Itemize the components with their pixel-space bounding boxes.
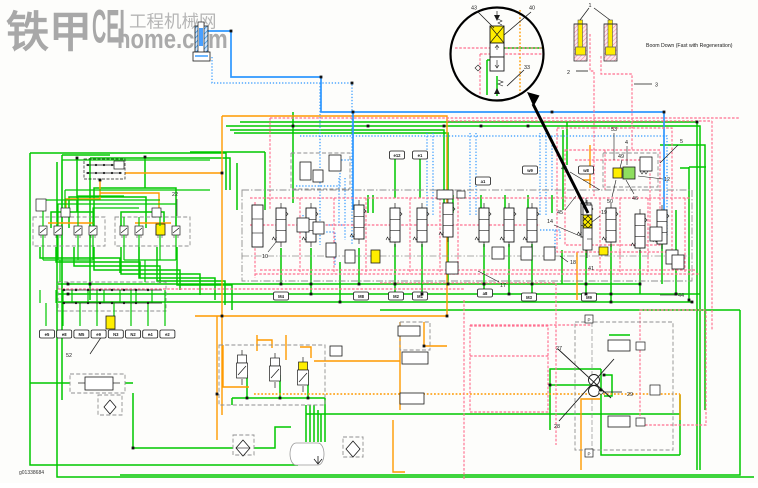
svg-text:Boom Down (Fast with Regenerat: Boom Down (Fast with Regeneration) bbox=[646, 43, 733, 49]
svg-text:e2: e2 bbox=[165, 332, 170, 337]
svg-text:a1: a1 bbox=[481, 179, 486, 184]
svg-text:17: 17 bbox=[500, 283, 506, 289]
svg-text:w9: w9 bbox=[526, 168, 533, 173]
svg-text:18: 18 bbox=[570, 260, 576, 266]
svg-text:home.com: home.com bbox=[117, 25, 228, 55]
svg-text:M3: M3 bbox=[526, 295, 532, 300]
svg-text:5: 5 bbox=[680, 139, 683, 145]
svg-text:53: 53 bbox=[611, 127, 617, 133]
svg-text:19: 19 bbox=[601, 210, 607, 216]
svg-text:29: 29 bbox=[627, 392, 633, 398]
svg-text:44: 44 bbox=[678, 293, 684, 299]
svg-text:49: 49 bbox=[618, 154, 624, 160]
svg-text:40: 40 bbox=[529, 6, 535, 12]
svg-text:46: 46 bbox=[632, 196, 638, 202]
svg-text:e5: e5 bbox=[45, 332, 50, 337]
svg-text:e8: e8 bbox=[62, 332, 67, 337]
svg-text:27: 27 bbox=[556, 346, 562, 352]
svg-text:52: 52 bbox=[66, 353, 72, 359]
svg-text:3: 3 bbox=[655, 83, 658, 89]
svg-text:33: 33 bbox=[524, 65, 530, 71]
svg-text:41: 41 bbox=[588, 266, 594, 272]
svg-text:M8: M8 bbox=[358, 294, 364, 299]
svg-text:M5: M5 bbox=[78, 332, 84, 337]
svg-text:P: P bbox=[587, 452, 590, 457]
svg-text:w8: w8 bbox=[582, 168, 589, 173]
svg-text:28: 28 bbox=[554, 424, 560, 430]
svg-text:e12: e12 bbox=[394, 153, 402, 158]
svg-text:22: 22 bbox=[172, 192, 178, 198]
svg-text:14: 14 bbox=[547, 219, 553, 225]
svg-text:M9: M9 bbox=[586, 295, 592, 300]
svg-text:N3: N3 bbox=[113, 332, 119, 337]
svg-text:e4: e4 bbox=[148, 332, 153, 337]
svg-text:50: 50 bbox=[607, 199, 613, 205]
svg-text:12: 12 bbox=[664, 177, 670, 183]
svg-text:1: 1 bbox=[589, 3, 592, 9]
svg-text:e9: e9 bbox=[96, 332, 101, 337]
svg-text:铁甲: 铁甲 bbox=[6, 9, 92, 57]
svg-text:42: 42 bbox=[561, 166, 567, 172]
svg-text:4: 4 bbox=[625, 140, 628, 146]
svg-text:g01338684: g01338684 bbox=[19, 470, 44, 476]
svg-text:43: 43 bbox=[471, 6, 477, 12]
svg-text:M4: M4 bbox=[278, 294, 284, 299]
svg-text:2: 2 bbox=[567, 70, 570, 76]
svg-text:N2: N2 bbox=[130, 332, 136, 337]
svg-text:45: 45 bbox=[557, 210, 563, 216]
svg-text:M2: M2 bbox=[393, 294, 399, 299]
svg-text:10: 10 bbox=[262, 254, 268, 260]
svg-text:e1: e1 bbox=[418, 153, 423, 158]
svg-text:a8: a8 bbox=[483, 291, 488, 296]
svg-text:P: P bbox=[587, 318, 590, 323]
